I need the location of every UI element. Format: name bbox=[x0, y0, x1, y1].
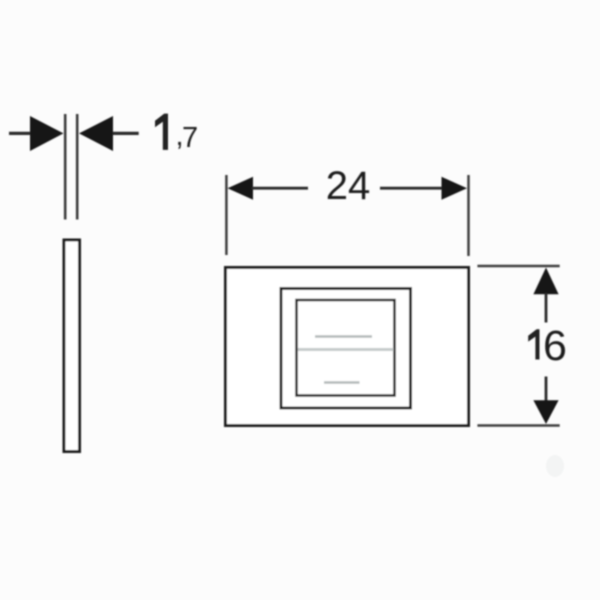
dimension 1,7 leader line right segment bbox=[113, 132, 139, 135]
dimension 1,7 left arrow (pointing right) bbox=[30, 116, 64, 151]
dimension label 1,7 bbox=[155, 114, 198, 154]
dimension 24 right arrow (pointing right) bbox=[442, 177, 468, 200]
dimension 24 leader line left segment bbox=[252, 187, 308, 190]
dimension 24 left arrow (pointing left) bbox=[228, 177, 254, 200]
dimension 16 up arrow (pointing up) bbox=[533, 268, 558, 295]
dimension 24 right extension line bbox=[467, 175, 470, 256]
front view plate outer rectangle bbox=[226, 268, 469, 426]
dimension 16 leader line upper segment bbox=[545, 293, 548, 323]
svg-text:7: 7 bbox=[182, 122, 198, 154]
extension line (plate left face) bbox=[64, 114, 67, 220]
extension line (plate right face) bbox=[76, 114, 79, 220]
front view button frame rectangle bbox=[281, 289, 411, 409]
svg-text:24: 24 bbox=[326, 164, 371, 208]
button split line (gray) bbox=[298, 348, 394, 351]
dimension 1,7 right arrow (pointing left) bbox=[79, 116, 113, 151]
dimension 1,7 leader line left segment bbox=[9, 132, 30, 135]
dimension 24 left extension line bbox=[225, 175, 228, 255]
faint print smudge bbox=[546, 455, 564, 477]
lower button dash (gray) bbox=[324, 381, 360, 384]
dimension 16 bottom extension line bbox=[477, 424, 559, 427]
dimension 16 down arrow (pointing down) bbox=[533, 400, 558, 424]
dimension 16 leader line lower segment bbox=[545, 377, 548, 402]
front view button inner rectangle bbox=[297, 300, 395, 396]
side view plate (thickness view) bbox=[64, 240, 80, 452]
dimension 16 top extension line bbox=[477, 265, 559, 268]
upper button dash (gray) bbox=[315, 335, 372, 338]
dimension 24 leader line right segment bbox=[380, 187, 442, 190]
svg-text:6: 6 bbox=[543, 322, 567, 370]
dimension label 16 bbox=[528, 322, 567, 370]
